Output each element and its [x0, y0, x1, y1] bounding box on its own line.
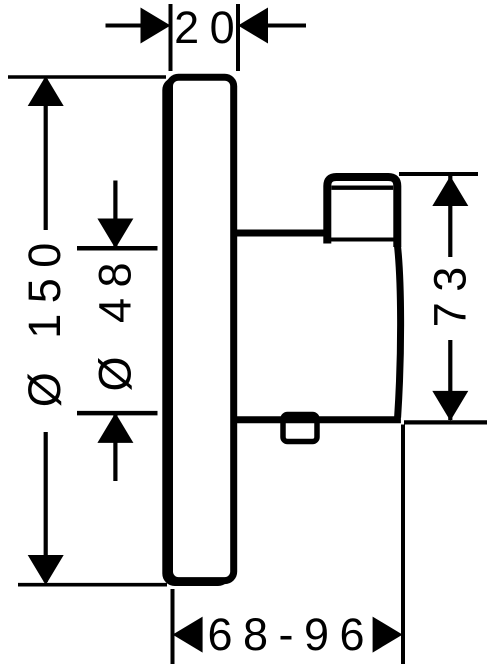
dim 73 line upper segment [448, 176, 452, 257]
svg-text:Ø 150: Ø 150 [19, 232, 70, 407]
dim 48 line lower segment [113, 414, 117, 481]
body bottom edge [232, 416, 401, 423]
dim 20 left extension line [169, 4, 173, 71]
body top edge [232, 230, 331, 237]
escutcheon front plate [170, 77, 234, 580]
dim 73 arrow up [432, 176, 468, 206]
dim 48 label [90, 252, 141, 392]
dim 20 left tail line [106, 24, 141, 28]
dim 48 arrow down [97, 219, 133, 249]
svg-text:68-96: 68-96 [207, 609, 375, 660]
body right edge [397, 244, 400, 418]
dim 20 right extension line [236, 4, 240, 71]
dim 73 top extension line [399, 172, 478, 176]
dim 73 line lower segment [448, 340, 452, 420]
dim 150 line lower segment [44, 432, 48, 582]
handle inner line [331, 186, 393, 190]
dim 150 top extension line [8, 75, 166, 79]
svg-text:20: 20 [174, 2, 245, 53]
dim 68-96 left extension line [171, 589, 175, 664]
dim 48 top extension line [77, 246, 158, 251]
dim 48 arrow up [97, 413, 133, 443]
handle [327, 177, 397, 247]
dim 73 arrow down [432, 391, 468, 421]
bottom tab [283, 415, 317, 442]
dim 150 arrow down [28, 555, 64, 585]
dim 48 bottom extension line [77, 411, 158, 416]
dim 73 bottom extension line [404, 420, 487, 424]
dim 73 label [424, 256, 475, 327]
dim 20 arrow left [238, 8, 268, 44]
dim 150 arrow up [28, 76, 64, 106]
escutcheon back plate [166, 81, 227, 583]
dim 150 label [19, 232, 70, 407]
dim 68-96 arrow right [373, 617, 403, 653]
dim 150 bottom extension line [18, 583, 167, 587]
dim 20 arrow right [141, 8, 171, 44]
svg-text:Ø 48: Ø 48 [90, 252, 141, 392]
handle base line [327, 238, 397, 242]
svg-text:73: 73 [424, 256, 475, 327]
dim 48 line upper segment [113, 181, 117, 247]
dim 20 right tail line [268, 24, 306, 28]
dim 68-96 arrow left [173, 617, 203, 653]
dim 150 line upper segment [44, 79, 48, 230]
dim 68-96 right extension line [401, 425, 405, 664]
